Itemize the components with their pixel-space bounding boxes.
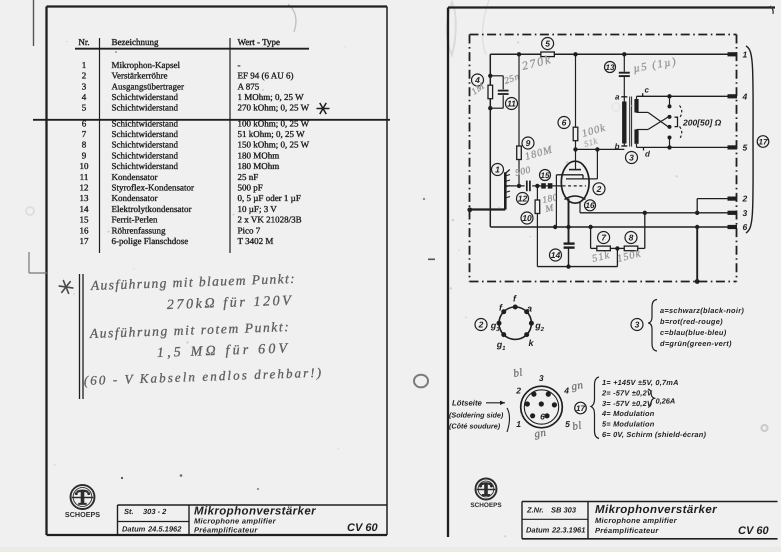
svg-text:T 3402 M: T 3402 M [238,236,274,246]
svg-text:Ausgangsübertrager: Ausgangsübertrager [112,81,184,91]
svg-text:3: 3 [82,81,87,91]
svg-text:Schichtwiderstand: Schichtwiderstand [112,140,179,150]
svg-text:Préamplificateur: Préamplificateur [595,526,659,535]
svg-text:3: 3 [629,153,634,163]
svg-text:6: 6 [562,118,567,128]
svg-text:Elektrolytkondensator: Elektrolytkondensator [112,204,192,214]
svg-text:Lötseite: Lötseite [452,399,483,408]
svg-text:10 µF; 3 V: 10 µF; 3 V [238,204,278,214]
svg-text:2: 2 [515,385,521,395]
svg-text:1: 1 [82,60,87,70]
svg-text:a: a [615,92,620,101]
svg-text:Schichtwiderstand: Schichtwiderstand [112,103,179,113]
svg-text:5: 5 [82,103,87,113]
svg-text:2: 2 [478,320,484,330]
svg-text:12: 12 [518,194,528,204]
svg-text:Datum: Datum [526,526,550,535]
svg-text:1: 1 [743,49,748,59]
svg-text:200[50] Ω: 200[50] Ω [682,118,722,128]
svg-text:4: 4 [742,91,748,101]
svg-text:b=rot(red-rouge): b=rot(red-rouge) [660,317,723,326]
svg-text:0,26A: 0,26A [656,397,676,406]
svg-text:gn: gn [533,427,547,441]
svg-text:5: 5 [565,419,570,429]
svg-text:Schichtwiderstand: Schichtwiderstand [112,129,179,139]
svg-text:14: 14 [80,204,90,214]
svg-text:Microphone amplifier: Microphone amplifier [194,517,277,526]
svg-text:500 pF: 500 pF [238,183,263,193]
svg-text:180 MOhm: 180 MOhm [238,161,280,171]
svg-text:(Côté soudure): (Côté soudure) [449,422,501,431]
svg-text:2= -57V ±0,2V: 2= -57V ±0,2V [601,388,653,397]
svg-text:11: 11 [507,99,516,109]
svg-text:a=schwarz(black-noir): a=schwarz(black-noir) [660,306,744,315]
svg-text:4= Modulation: 4= Modulation [601,409,655,418]
svg-text:8: 8 [629,233,634,243]
svg-text:16: 16 [586,201,595,210]
svg-text:13: 13 [606,63,615,72]
svg-text:13: 13 [80,193,90,203]
svg-text:3: 3 [635,320,640,330]
svg-text:c=blau(blue-bleu): c=blau(blue-bleu) [660,328,727,337]
svg-text:17: 17 [80,236,90,246]
svg-text:10: 10 [80,161,90,171]
svg-text:A 875: A 875 [238,81,260,91]
svg-text:9: 9 [526,138,531,148]
svg-text:d=grün(green-vert): d=grün(green-vert) [660,339,732,348]
svg-text:24.5.1962: 24.5.1962 [147,525,182,534]
svg-text:12: 12 [80,183,89,193]
svg-text:9: 9 [82,150,87,160]
svg-text:1 MOhm; 0, 25 W: 1 MOhm; 0, 25 W [238,92,305,102]
svg-text:2 x VK 21028/3B: 2 x VK 21028/3B [238,215,302,225]
svg-text:303 - 2: 303 - 2 [143,507,167,516]
svg-text:CV 60: CV 60 [738,525,769,537]
svg-text:Z.Nr.: Z.Nr. [526,506,544,515]
svg-text:Microphone amplifier: Microphone amplifier [595,516,678,525]
svg-text:17: 17 [576,404,585,413]
svg-text:Schichtwiderstand: Schichtwiderstand [112,92,179,102]
svg-text:1: 1 [495,165,500,175]
svg-text:3: 3 [539,373,544,383]
svg-text:Röhrenfassung: Röhrenfassung [112,225,166,235]
svg-text:Mikrophon-Kapsel: Mikrophon-Kapsel [112,60,181,70]
svg-text:Préamplificateur: Préamplificateur [194,526,258,535]
svg-text:5: 5 [545,39,550,49]
svg-text:22.3.1961: 22.3.1961 [551,526,585,535]
svg-text:1: 1 [516,419,521,429]
svg-text:Ferrit-Perlen: Ferrit-Perlen [112,215,158,225]
svg-text:CV 60: CV 60 [347,522,378,534]
svg-text:3= -57V ±0,2V: 3= -57V ±0,2V [602,399,653,408]
svg-text:b: b [615,142,620,151]
svg-text:15: 15 [80,215,90,225]
svg-text:5: 5 [743,142,748,152]
svg-text:St.: St. [124,507,134,516]
svg-text:3: 3 [743,208,748,218]
svg-text:Schichtwiderstand: Schichtwiderstand [112,150,179,160]
svg-text:17: 17 [759,137,768,146]
svg-text:Mikrophonverstärker: Mikrophonverstärker [595,504,717,516]
svg-text:270 kOhm; 0, 25 W: 270 kOhm; 0, 25 W [238,103,310,113]
svg-text:14: 14 [551,250,561,260]
svg-text:150 kOhm; 0, 25 W: 150 kOhm; 0, 25 W [238,140,310,150]
svg-text:Kondensator: Kondensator [112,172,158,182]
svg-text:6: 6 [540,412,545,422]
svg-text:6-polige Flanschdose: 6-polige Flanschdose [112,236,189,246]
svg-text:6: 6 [743,222,748,232]
svg-text:4: 4 [563,385,569,395]
svg-text:gn: gn [570,379,584,393]
svg-text:2: 2 [82,71,87,81]
svg-text:2: 2 [596,184,602,194]
svg-text:6= 0V, Schirm (shield-écran): 6= 0V, Schirm (shield-écran) [602,430,706,439]
svg-text:2: 2 [540,326,545,333]
svg-text:Pico 7: Pico 7 [238,225,261,235]
svg-text:Kondensator: Kondensator [112,193,158,203]
svg-text:25 nF: 25 nF [238,172,259,182]
svg-text:SB 303: SB 303 [551,506,577,515]
svg-text:Schichtwiderstand: Schichtwiderstand [112,161,179,171]
svg-text:Verstärkerröhre: Verstärkerröhre [112,71,168,81]
svg-text:180 MOhm: 180 MOhm [238,150,280,160]
svg-text:10: 10 [522,213,532,223]
svg-text:Datum: Datum [122,525,146,534]
svg-text:0, 5 µF oder 1 µF: 0, 5 µF oder 1 µF [238,193,301,203]
svg-text:7: 7 [82,129,87,139]
svg-text:SCHOEPS: SCHOEPS [470,502,502,509]
svg-text:-: - [238,60,241,70]
svg-text:1= +145V ±5V, 0,7mA: 1= +145V ±5V, 0,7mA [602,378,679,387]
svg-text:Nr.: Nr. [78,37,89,47]
svg-text:51 kOhm; 0, 25 W: 51 kOhm; 0, 25 W [238,129,306,139]
svg-text:15: 15 [541,171,550,180]
svg-text:c: c [645,86,650,95]
svg-text:16: 16 [80,225,90,235]
svg-text:2: 2 [742,194,748,204]
svg-text:Wert - Type: Wert - Type [238,37,280,47]
svg-text:EF 94 (6 AU 6): EF 94 (6 AU 6) [238,71,294,81]
svg-text:5= Modulation: 5= Modulation [602,420,655,429]
svg-text:Bezeichnung: Bezeichnung [112,37,159,47]
svg-text:SCHOEPS: SCHOEPS [65,510,100,519]
svg-text:Styroflex-Kondensator: Styroflex-Kondensator [112,183,194,193]
svg-text:a: a [527,304,532,314]
svg-text:8: 8 [82,140,87,150]
svg-text:11: 11 [80,172,89,182]
svg-text:(Soldering side): (Soldering side) [449,411,504,420]
svg-text:4: 4 [82,92,87,102]
